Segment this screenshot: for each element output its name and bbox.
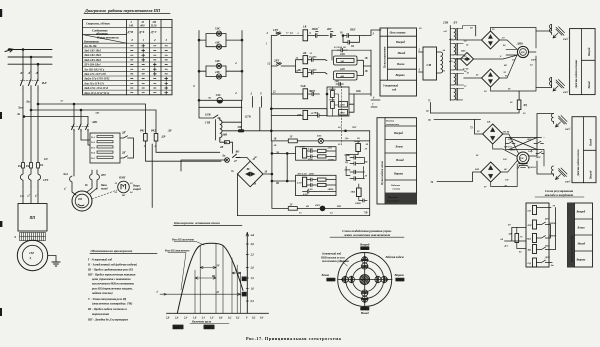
y ticks and labels — [246, 244, 248, 301]
svg-text:положениях рукоятки: положениях рукоятки — [322, 260, 349, 263]
inner bus junctions — [286, 153, 288, 155]
svg-text:1ЛС: 1ЛС — [216, 93, 221, 97]
label 3 — [192, 84, 195, 88]
reg contact b — [537, 236, 551, 238]
label 6Н — [528, 210, 532, 213]
label II — [216, 291, 220, 294]
left small arrow I — [160, 293, 167, 295]
svg-text:3АО: 3АО — [307, 148, 313, 151]
reg table texts — [576, 211, 586, 262]
label мА — [250, 234, 255, 237]
branch node A — [37, 103, 39, 105]
thermal element 1РТ b — [28, 168, 31, 186]
resistor 4Н vert — [515, 234, 519, 243]
svg-text:наклада и координат: наклада и координат — [545, 193, 574, 197]
svg-text:91: 91 — [505, 75, 507, 78]
switch N pair — [362, 257, 368, 263]
svg-text:Рабочая подаче: Рабочая подаче — [386, 256, 405, 259]
switch E pair — [375, 276, 381, 282]
transformer 2ТВ core — [449, 26, 451, 101]
tag bottom text — [361, 309, 367, 311]
wire after coil — [308, 35, 314, 37]
svg-text:Назад: Назад — [590, 138, 593, 147]
label IV — [216, 265, 221, 268]
svg-text:2МО: 2МО — [339, 112, 345, 115]
svg-text:Лм-1В1-1В2+1Га: Лм-1В1-1В2+1Га — [83, 68, 105, 71]
wire from lamp bus down-left — [199, 107, 213, 118]
switch S pair — [362, 290, 368, 296]
resistor 5Н — [533, 245, 537, 254]
В1 to motor cross wire — [500, 40, 518, 49]
svg-text:Назад: Назад — [577, 243, 586, 246]
bridge В5 — [481, 162, 501, 182]
svg-text:27: 27 — [233, 160, 237, 163]
resistor bar 4АО — [337, 73, 355, 77]
label СИ — [427, 63, 432, 67]
svg-text:1ТВ: 1ТВ — [205, 121, 210, 125]
svg-text:7В: 7В — [364, 211, 367, 215]
labels Рд1 Рд2 ДР — [140, 129, 165, 149]
В4 to ДМ cross wires — [493, 134, 519, 157]
coil 1К — [303, 30, 308, 41]
svg-text:ПМГ: ПМГ — [118, 176, 126, 180]
wire after 2М coil — [308, 114, 327, 118]
wire 70 — [431, 113, 481, 119]
svg-text:61: 61 — [476, 74, 479, 77]
label 70 — [428, 119, 431, 122]
svg-text:ДОС: ДОС — [535, 157, 541, 159]
svg-text:Д֣+б: Д֣+б — [138, 30, 145, 34]
header row lines — [83, 27, 173, 43]
note text left of circle — [320, 253, 349, 264]
svg-text:Вперед: Вперед — [588, 47, 591, 57]
scattered designator labels — [59, 27, 511, 215]
rect 1МО — [339, 102, 348, 108]
wire 70 reg — [537, 205, 551, 207]
table data row separators — [83, 48, 173, 90]
svg-text:Влево: Влево — [396, 62, 405, 66]
svg-text:2АО: 2АО — [327, 147, 333, 150]
right rail of loop — [369, 141, 371, 216]
svg-text:БВ: БВ — [486, 121, 491, 124]
В1 left wire — [469, 40, 482, 41]
label 9КВ — [314, 111, 319, 114]
svg-text:Диаграмма работы переключател: Диаграмма работы переключателя ПП — [84, 8, 161, 13]
box inner wires — [332, 87, 338, 116]
label 9КВБ — [354, 140, 361, 143]
motor right wire — [529, 51, 536, 53]
tag left text — [327, 280, 333, 282]
resistor 1У on top wire — [288, 139, 297, 143]
svg-text:Назад: Назад — [360, 311, 370, 315]
svg-text:выключателя 9КВ на контакты: выключателя 9КВ на контакты — [92, 282, 134, 286]
label ПР — [237, 126, 242, 129]
contact 2К2 — [120, 156, 131, 158]
wire to coil 1К — [284, 35, 304, 37]
svg-text:140: 140 — [129, 24, 134, 28]
contact after 3К — [308, 71, 327, 75]
label 73 — [470, 127, 473, 130]
coil 2К upper — [303, 56, 308, 64]
label 2МУ2 — [562, 90, 569, 94]
contact cluster c — [350, 177, 364, 181]
svg-text:2ТВ: 2ТВ — [442, 21, 448, 25]
stack2 cell lines — [385, 140, 417, 194]
svg-text:мА: мА — [250, 234, 255, 237]
junction rung 108.7 — [270, 108, 272, 110]
frame wires — [506, 138, 545, 167]
В2 to motor wire — [474, 55, 518, 59]
label 10КВБ — [329, 88, 337, 91]
labels 2 5 — [250, 92, 263, 96]
stack2 bottom text — [387, 196, 400, 203]
svg-text:23 ЛАБ 1В: 23 ЛАБ 1В — [333, 46, 346, 49]
label 69 — [508, 224, 511, 227]
svg-text:֣РО 84: ֣РО 84 — [502, 131, 510, 134]
stack1 cells text — [395, 40, 406, 77]
2МУ1 arrow — [553, 33, 558, 38]
lower left rail — [271, 141, 273, 209]
label МО — [221, 155, 226, 158]
svg-text:104 54: 104 54 — [529, 166, 536, 169]
phase wire L3 — [8, 63, 52, 65]
stack1 bottom cell text — [383, 85, 398, 92]
svg-text:16 3Кб: 16 3Кб — [309, 68, 317, 71]
left branch labels — [274, 138, 280, 186]
svg-text:ВЛ: ВЛ — [41, 81, 47, 85]
motor 2М label — [77, 198, 82, 201]
svg-text:4: 4 — [234, 91, 237, 95]
contact 2К1 — [120, 136, 131, 138]
svg-text:2: 2 — [250, 92, 253, 96]
svg-text:падает столик): падает столик) — [92, 291, 113, 295]
contact after 2К — [308, 58, 327, 62]
rotor resistor box — [90, 133, 120, 163]
contact ПКУ upper — [343, 34, 363, 38]
left rail 3 — [198, 31, 200, 108]
box СИ — [423, 47, 437, 80]
dashed actuator line — [341, 86, 343, 145]
reg right bus — [551, 208, 556, 250]
svg-text:4: 4 — [234, 61, 237, 65]
svg-text:Вперед: Вперед — [576, 211, 586, 214]
switch 9В on bottom wire — [292, 205, 302, 209]
svg-text:Шунтируемые резисторы: Шунтируемые резисторы — [571, 235, 573, 263]
contact 1РТ — [274, 32, 284, 36]
label Реле РД включено — [172, 239, 195, 242]
label 4Н — [508, 233, 524, 239]
stack2 left divider — [384, 118, 386, 204]
labels 5ЛС 4ЛС — [214, 27, 220, 45]
2ТВ core bar 2 — [456, 44, 458, 55]
y axis arrow — [246, 233, 249, 237]
contact 2КУ — [319, 34, 335, 38]
svg-text:РД: РД — [345, 161, 348, 164]
label 2КУ — [326, 28, 333, 31]
stack 1 left column divider — [387, 28, 389, 80]
svg-text:2АО: 2АО — [339, 53, 345, 56]
contact network above ДМ: left contact — [506, 141, 516, 143]
svg-text:Лі: Лі — [19, 71, 23, 75]
reg contact c — [537, 247, 551, 249]
tag text — [174, 326, 180, 329]
label Назад bottom — [360, 311, 370, 315]
motor ДМ brush bar — [519, 163, 527, 165]
svg-text:БТ: БТ — [453, 21, 458, 25]
svg-text:֤ДОС: ֤ДОС — [544, 256, 550, 259]
label above meter — [317, 135, 322, 138]
column lines — [127, 20, 162, 95]
labels 2 3 — [418, 48, 421, 72]
lamp group A box wires — [199, 34, 242, 47]
label 16 2К6 — [309, 56, 317, 59]
label Реле РД отключено — [165, 250, 190, 253]
svg-text:5ЛС: 5ЛС — [215, 27, 220, 31]
drop wire c — [87, 117, 89, 125]
svg-text:1РТ: 1РТ — [43, 178, 48, 182]
svg-text:Ло: Ло — [221, 155, 226, 158]
rung1 wire — [271, 35, 274, 37]
resistor 10Д — [533, 234, 537, 243]
label 23 1АБ 1В — [333, 46, 346, 49]
wire into bridge — [240, 158, 250, 162]
bridge ВС diamond — [237, 161, 263, 187]
svg-text:П - Замедленный ход (рабочая п: П - Замедленный ход (рабочая подача) — [87, 262, 137, 266]
2ТВ winding section 4 — [454, 74, 456, 85]
reg table row lines — [575, 203, 593, 267]
wire 2РТ b down — [87, 184, 97, 192]
stack2 rotated label — [381, 160, 384, 186]
svg-text:а11: а11 — [444, 31, 447, 33]
box1 contact a — [307, 149, 317, 152]
2М pigtail — [78, 204, 84, 206]
label 4АО above — [297, 172, 314, 175]
cross axis horizontal — [338, 278, 392, 281]
svg-text:вперед: вперед — [133, 188, 141, 191]
svg-text:Лмв-1Га-1Гб-1Гг: Лмв-1Га-1Гб-1Гг — [83, 82, 104, 85]
drop node a — [73, 103, 75, 105]
misc numbers — [337, 137, 369, 146]
sensor box 1 — [570, 29, 596, 95]
svg-text:ДА: ДА — [504, 245, 509, 248]
coil 2М lower — [303, 111, 308, 120]
В3 to motor cross wire — [500, 55, 518, 78]
regulation main box — [526, 203, 549, 267]
feed control box 2 — [296, 175, 337, 195]
svg-text:1РТ: 1РТ — [273, 28, 278, 32]
wire ВС left vertex down — [237, 174, 272, 216]
svg-text:Рп: Рп — [26, 165, 30, 168]
box2 lower contact — [303, 190, 315, 193]
label 1ЛС — [216, 93, 221, 97]
label 2К2 — [121, 151, 126, 155]
label 1РТ — [43, 178, 48, 182]
wire 76 — [434, 180, 473, 182]
label Влево left — [321, 273, 330, 277]
winding 2МУ2 — [550, 78, 552, 88]
svg-text:4АО: 4АО — [339, 68, 345, 71]
label 72 — [426, 100, 431, 114]
svg-text:Вправо: Вправо — [393, 172, 404, 176]
drop wire a — [73, 104, 75, 124]
branch wire y110 to DR — [31, 110, 156, 134]
outer circle — [338, 253, 392, 307]
rail 127В drop — [241, 122, 243, 131]
label 2МО — [339, 112, 345, 115]
svg-text:БМ: БМ — [474, 168, 480, 171]
lamp 1ЛС (half filled) — [217, 98, 223, 104]
bell curve — [177, 243, 243, 313]
svg-text:назад: назад — [101, 187, 108, 190]
resistor 6Н — [533, 206, 537, 215]
label I left — [156, 291, 159, 294]
В4 diodes — [490, 128, 495, 141]
label 2МУ1 — [562, 37, 569, 41]
label V — [235, 270, 238, 273]
2ТВ core bar 3 — [456, 59, 458, 70]
2ТВ core bar 4 — [456, 74, 458, 85]
svg-text:ШЇ - Доводка до Д к֤ вормиурам: ШЇ - Доводка до Д к֤ вормиурам — [87, 318, 128, 322]
svg-text:ОД: ОД — [528, 262, 532, 265]
title underline — [535, 196, 584, 198]
bottom wire of loop — [272, 207, 370, 209]
bottom long wire — [237, 215, 369, 217]
lamp group B box wires — [199, 66, 242, 77]
svg-text:Ш - Пробел выбега системы и: Ш - Пробел выбега системы и — [87, 307, 127, 311]
svg-text:АВ1: АВ1 — [91, 120, 98, 124]
label 3КБ — [350, 191, 356, 194]
bridge corner labels — [231, 158, 268, 186]
svg-text:Лтм-1Гз1-1Гз2+1Гз4: Лтм-1Гз1-1Гз2+1Гз4 — [83, 92, 110, 95]
branch node C — [23, 116, 25, 118]
svg-text:ЗКБ: ЗКБ — [350, 191, 356, 194]
long drop wire left of АТр — [151, 144, 153, 208]
label 1340 — [328, 188, 334, 191]
reg table rotated header — [571, 235, 573, 263]
legend title — [91, 249, 133, 253]
phase wire L2 — [8, 56, 52, 58]
svg-text:Лзг: Лзг — [25, 100, 31, 104]
node L2 drop — [30, 56, 32, 58]
label ВО — [233, 151, 239, 164]
label 6В — [306, 204, 342, 208]
wire 2ТВ top to bridge В1 — [475, 26, 477, 37]
svg-text:Рп: Рп — [18, 165, 22, 168]
label 1РТ — [266, 28, 279, 35]
motor ground wire — [48, 256, 56, 263]
transformer 1ТВ winding — [220, 118, 222, 140]
rail 5 drop — [259, 107, 261, 131]
label 5В — [477, 121, 491, 134]
svg-text:ВО: ВО — [235, 151, 240, 154]
labels right of box1 — [327, 147, 335, 162]
В1 top loop wire — [491, 28, 537, 92]
label 52 — [492, 28, 495, 31]
hatch coupling 2МУ2 — [556, 80, 565, 89]
label 2К1 — [121, 131, 126, 135]
tag top text — [361, 248, 367, 250]
black tag left — [326, 278, 335, 282]
table title — [84, 8, 161, 13]
3МУ1 arrow — [556, 122, 561, 127]
svg-text:СИ: СИ — [427, 63, 432, 67]
black tag bottom — [360, 307, 369, 311]
svg-text:10Д: 10Д — [527, 238, 532, 241]
svg-text:Вперед: Вперед — [359, 242, 370, 246]
label III — [211, 275, 216, 278]
svg-text:Обозначения на циклограмме: Обозначения на циклограмме — [91, 249, 133, 253]
label 10КВБ low — [355, 202, 361, 205]
incoming supply arrow — [5, 49, 13, 52]
label ПМГ — [118, 176, 126, 180]
svg-text:6ЛС: 6ЛС — [317, 135, 322, 138]
contact Дм above — [336, 82, 343, 85]
svg-text:Циклограмма остановки стола: Циклограмма остановки стола — [173, 221, 220, 225]
thermal element 1РТ c — [38, 168, 41, 186]
legend lines — [87, 257, 137, 321]
svg-text:Назад: Назад — [588, 81, 591, 90]
branch wire y104 to R block — [38, 104, 146, 134]
motor 2М outer — [72, 191, 92, 211]
svg-text:Рд2: Рд2 — [151, 129, 156, 133]
stack1 cell lines — [380, 47, 417, 80]
wires motor to sensor1 — [534, 25, 552, 88]
svg-text:ления на конечные выключатели: ления на конечные выключатели — [343, 233, 391, 237]
wire to stack2 a — [371, 100, 380, 107]
svg-text:3МУࠡ: 3МУࠡ — [564, 127, 571, 131]
contactor 1ВГ pole c — [86, 124, 88, 131]
svg-text:Назад: Назад — [397, 51, 406, 55]
svg-text:2РТ: 2РТ — [100, 174, 106, 177]
wire Рд1 down and right — [146, 141, 222, 161]
wire 72 — [431, 110, 520, 114]
node L3 drop — [37, 63, 39, 65]
zigzag link wires — [346, 155, 364, 166]
rail 127V drop — [241, 100, 243, 131]
label 2М — [296, 114, 301, 117]
right rail 4 — [241, 31, 243, 97]
svg-text:2,4: 2,4 — [183, 316, 188, 319]
resistor box 4АО — [334, 71, 358, 80]
svg-text:Лт2-1Б2-1Вг2: Лт2-1Б2-1Вг2 — [83, 54, 102, 57]
arrow II long — [167, 293, 241, 295]
tag right text — [396, 280, 402, 282]
labels 6 7 — [372, 97, 375, 107]
wires down to fuses — [23, 89, 38, 163]
svg-text:Вправо: Вправо — [395, 73, 406, 77]
handle title underline — [330, 236, 404, 238]
title underline — [84, 13, 170, 15]
right joins of resistor boxes — [357, 60, 371, 75]
svg-text:4В: 4В — [219, 146, 223, 149]
rotor box feed wires — [81, 140, 90, 145]
switch ВО — [233, 154, 241, 157]
labels 34 31 — [442, 49, 446, 73]
resistor 6Д — [533, 258, 537, 267]
svg-text:Лт1-1Г1-1Г2+1Гб: Лт1-1Г1-1Г2+1Гб — [83, 73, 106, 76]
svg-text:Рис.17. Принципиальная электро: Рис.17. Принципиальная электросхема — [246, 336, 342, 341]
В5 left wire — [473, 172, 481, 181]
stack1 header text — [389, 32, 406, 35]
black tag top — [360, 246, 369, 250]
svg-text:Рд1: Рд1 — [140, 129, 145, 133]
label ПКУ — [349, 29, 357, 32]
svg-text:4РО: 4РО — [544, 218, 550, 221]
box1 inlet — [272, 152, 296, 154]
svg-text:См: См — [20, 195, 24, 198]
coil 1АО — [303, 149, 307, 159]
label ДМБ — [516, 43, 525, 55]
